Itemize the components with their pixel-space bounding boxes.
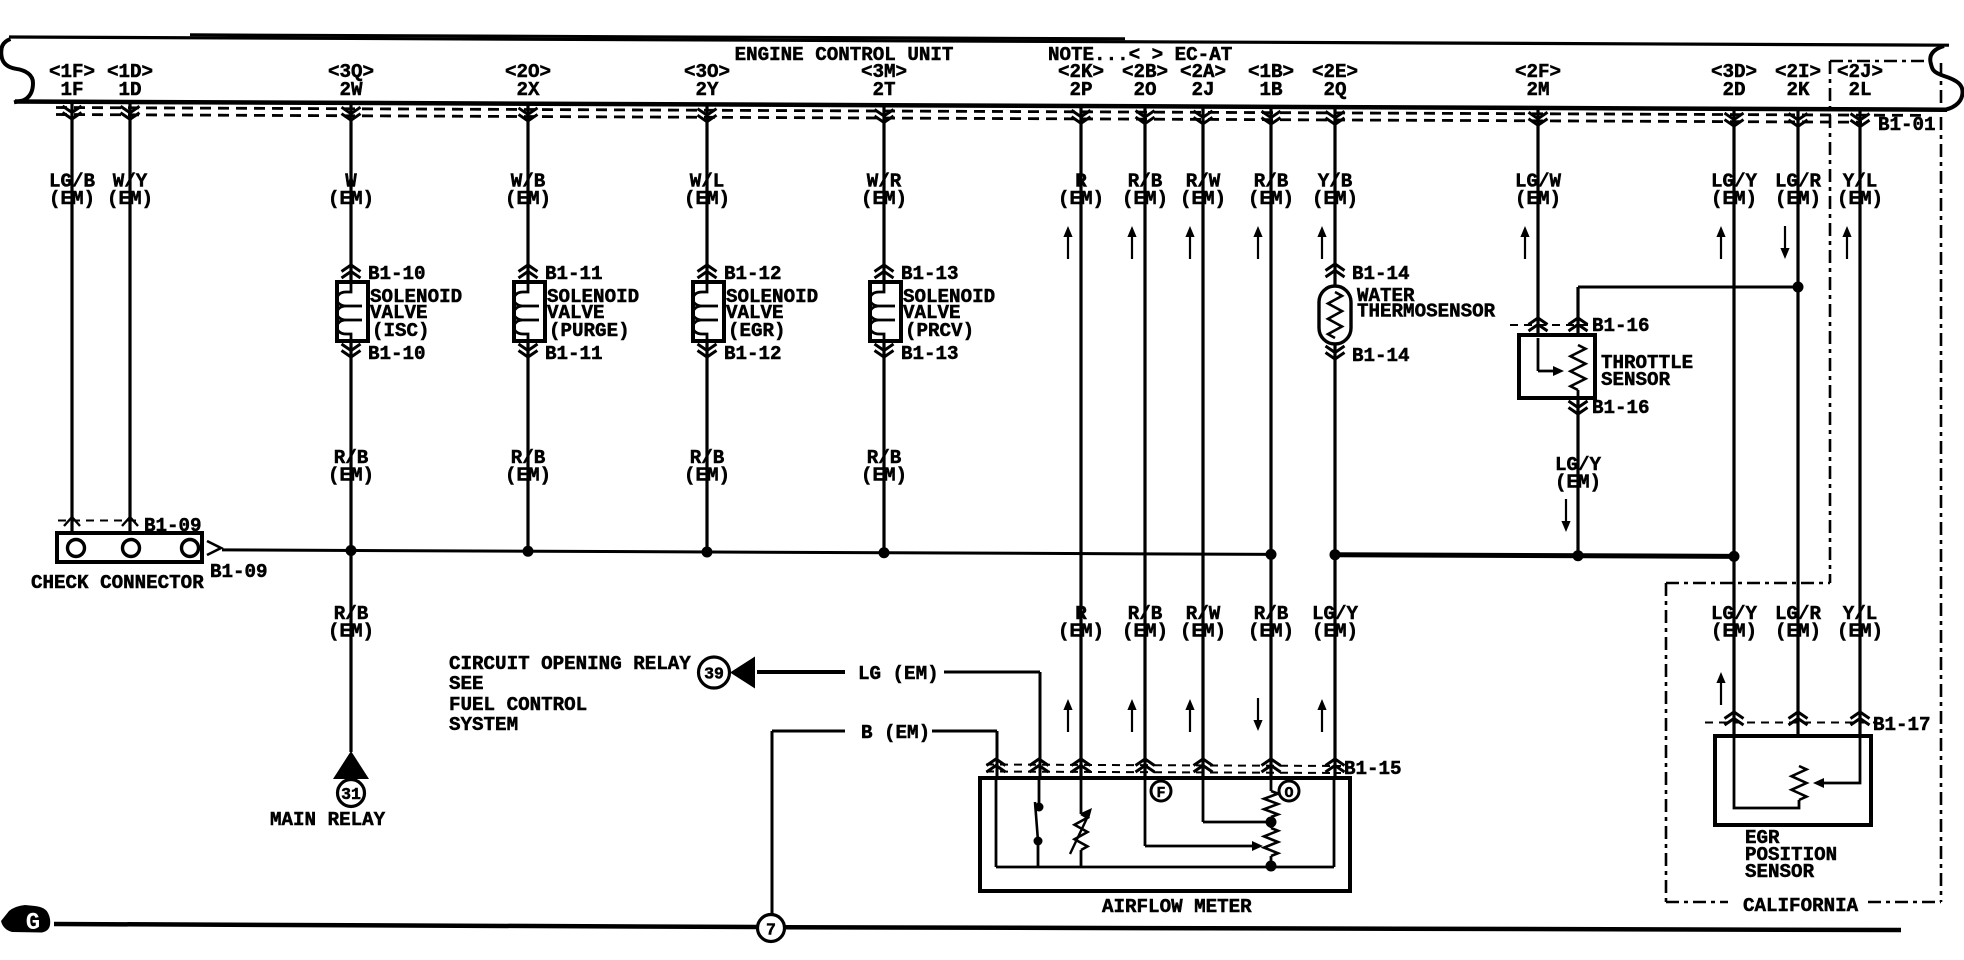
svg-text:SYSTEM: SYSTEM [449,714,518,736]
svg-text:ENGINE CONTROL UNIT: ENGINE CONTROL UNIT [735,44,954,66]
svg-text:2Y: 2Y [695,79,719,101]
svg-text:LG (EM): LG (EM) [858,663,939,685]
svg-text:(PRCV): (PRCV) [905,320,974,342]
svg-text:1D: 1D [118,79,141,101]
svg-text:2T: 2T [872,79,895,101]
svg-text:(PURGE): (PURGE) [549,320,630,342]
svg-text:AIRFLOW METER: AIRFLOW METER [1102,896,1252,918]
svg-text:B1-10: B1-10 [368,263,426,285]
svg-text:(EM): (EM) [1312,621,1358,643]
svg-text:(EM): (EM) [1248,621,1294,643]
svg-text:O: O [1284,785,1293,802]
svg-text:(EM): (EM) [684,465,730,487]
svg-text:SENSOR: SENSOR [1745,861,1815,883]
svg-text:(EM): (EM) [1555,472,1601,494]
svg-text:(EM): (EM) [328,621,374,643]
svg-text:CIRCUIT OPENING RELAY: CIRCUIT OPENING RELAY [449,653,691,675]
svg-text:2O: 2O [1133,79,1156,101]
svg-text:(EM): (EM) [505,465,551,487]
svg-text:G: G [26,910,40,937]
svg-text:SENSOR: SENSOR [1601,369,1671,391]
svg-text:(EM): (EM) [505,188,551,210]
svg-text:(EM): (EM) [1122,621,1168,643]
svg-text:B1-11: B1-11 [545,263,603,285]
svg-text:2L: 2L [1848,79,1871,101]
svg-text:B1-16: B1-16 [1592,315,1650,337]
svg-text:(EM): (EM) [1775,621,1821,643]
svg-text:B1-10: B1-10 [368,343,426,365]
svg-text:31: 31 [341,785,361,804]
svg-text:(EM): (EM) [1058,621,1104,643]
svg-text:(EM): (EM) [1180,188,1226,210]
svg-text:(EM): (EM) [1775,188,1821,210]
svg-text:F: F [1156,785,1165,802]
svg-text:THERMOSENSOR: THERMOSENSOR [1357,301,1496,323]
svg-text:B1-15: B1-15 [1344,758,1402,780]
svg-text:(EM): (EM) [1837,188,1883,210]
svg-text:(EGR): (EGR) [728,320,786,342]
svg-text:(EM): (EM) [1180,621,1226,643]
svg-text:(EM): (EM) [1122,188,1168,210]
svg-text:B1-12: B1-12 [724,263,782,285]
svg-text:(EM): (EM) [1711,188,1757,210]
svg-text:(EM): (EM) [861,188,907,210]
svg-text:(EM): (EM) [861,465,907,487]
svg-text:39: 39 [704,665,724,684]
svg-text:(EM): (EM) [328,465,374,487]
svg-text:2D: 2D [1722,79,1745,101]
svg-text:B1-01: B1-01 [1878,114,1936,136]
svg-text:(ISC): (ISC) [372,320,430,342]
svg-text:1B: 1B [1259,79,1283,101]
svg-text:2X: 2X [516,79,540,101]
svg-text:1F: 1F [60,79,83,101]
svg-text:(EM): (EM) [1058,188,1104,210]
svg-text:B1-13: B1-13 [901,343,959,365]
svg-text:NOTE...< > EC-AT: NOTE...< > EC-AT [1048,44,1232,66]
svg-text:2W: 2W [339,79,363,101]
svg-text:SEE: SEE [449,673,484,695]
svg-text:B1-16: B1-16 [1592,397,1650,419]
svg-text:(EM): (EM) [107,188,153,210]
svg-text:MAIN RELAY: MAIN RELAY [270,809,386,831]
svg-text:2Q: 2Q [1323,79,1346,101]
svg-text:B1-11: B1-11 [545,343,603,365]
svg-text:7: 7 [766,921,776,940]
svg-text:(EM): (EM) [1312,188,1358,210]
svg-text:CHECK CONNECTOR: CHECK CONNECTOR [31,572,204,594]
svg-text:(EM): (EM) [1837,621,1883,643]
svg-text:2J: 2J [1191,79,1214,101]
svg-text:(EM): (EM) [49,188,95,210]
svg-text:(EM): (EM) [684,188,730,210]
svg-text:(EM): (EM) [1248,188,1294,210]
svg-text:2P: 2P [1069,79,1092,101]
svg-text:B1-17: B1-17 [1873,714,1931,736]
svg-text:FUEL CONTROL: FUEL CONTROL [449,694,587,716]
svg-text:B1-14: B1-14 [1352,345,1410,367]
svg-text:B1-12: B1-12 [724,343,782,365]
svg-text:B (EM): B (EM) [861,722,930,744]
svg-text:B1-14: B1-14 [1352,263,1410,285]
svg-text:(EM): (EM) [328,188,374,210]
svg-text:CALIFORNIA: CALIFORNIA [1743,895,1859,917]
svg-text:2M: 2M [1526,79,1549,101]
svg-text:(EM): (EM) [1515,188,1561,210]
svg-text:2K: 2K [1786,79,1810,101]
svg-text:B1-09: B1-09 [210,561,268,583]
svg-text:(EM): (EM) [1711,621,1757,643]
svg-text:B1-13: B1-13 [901,263,959,285]
